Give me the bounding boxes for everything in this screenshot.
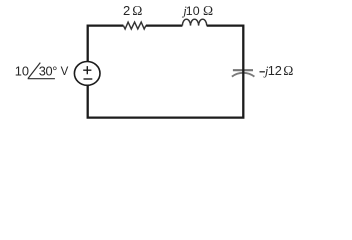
voltage source plus sign bbox=[83, 66, 91, 74]
wire top-left: left vertical upper segment and top wire to resistor bbox=[88, 26, 124, 62]
svg-text:V: V bbox=[61, 66, 69, 78]
wire from inductor to top-right corner, right wire, bottom wire, left wire lower segment bbox=[88, 26, 244, 118]
source label angle underline bbox=[28, 78, 55, 80]
wire between resistor and inductor bbox=[146, 24, 183, 26]
label -j12 ohm minus bbox=[260, 71, 265, 73]
svg-text:Ω: Ω bbox=[203, 3, 213, 18]
svg-text:10: 10 bbox=[186, 4, 200, 18]
source label angle slash bbox=[28, 63, 40, 79]
svg-text:30°: 30° bbox=[39, 63, 58, 78]
capacitor C (-j12 ohm) top plate bbox=[233, 69, 253, 71]
svg-text:Ω: Ω bbox=[283, 63, 293, 78]
capacitor C (-j12 ohm) curved bottom plate bbox=[232, 73, 255, 77]
inductor L (j10 ohm) three humps bbox=[182, 19, 206, 25]
resistor R (2 ohm) zigzag bbox=[123, 22, 145, 29]
svg-text:2: 2 bbox=[123, 3, 130, 18]
svg-text:10: 10 bbox=[15, 63, 29, 78]
voltage source minus sign bbox=[84, 78, 93, 80]
voltage source Vs circle bbox=[74, 62, 100, 86]
svg-text:Ω: Ω bbox=[132, 3, 142, 18]
svg-text:12: 12 bbox=[268, 63, 282, 78]
